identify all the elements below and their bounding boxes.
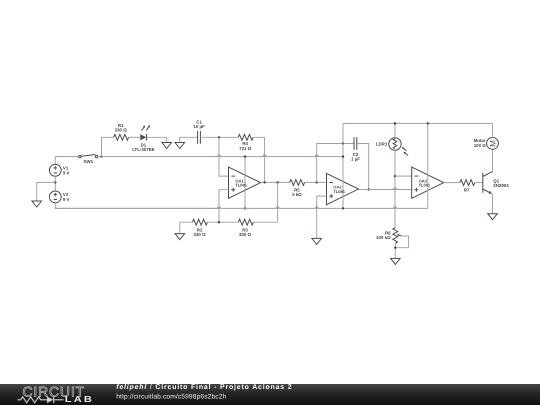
wire hop	[263, 155, 266, 157]
capacitor C1	[193, 119, 205, 143]
resistor R7	[460, 180, 475, 193]
svg-text:330 Ω: 330 Ω	[239, 232, 252, 237]
wire OA2 power pins / supply column	[342, 123, 344, 208]
svg-text:LAB: LAB	[65, 394, 94, 404]
wire ground to R2	[180, 222, 193, 233]
op-amp OA1	[229, 167, 261, 198]
wire R3 to output riser	[253, 221, 277, 223]
wire LDR1 bottom to R6	[394, 150, 396, 228]
wire Q1 collector to motor	[492, 149, 494, 171]
switch SW1	[79, 155, 98, 164]
svg-text:R7: R7	[464, 188, 470, 193]
resistor R2	[192, 219, 207, 237]
node LDR1 to OA3 inverting	[394, 175, 396, 177]
wire R7 to Q1 base	[475, 182, 483, 184]
wire R5 to OA2 inverting input	[305, 181, 327, 183]
wire OA3 output to R7	[444, 182, 460, 184]
node R2/R3 junction	[218, 221, 220, 223]
resistor R1	[114, 123, 129, 140]
ground	[488, 214, 498, 220]
resistor R4	[238, 134, 253, 150]
wire C2 left branch	[317, 144, 354, 183]
svg-text:M: M	[488, 140, 497, 147]
op-amp OA2	[327, 173, 359, 204]
wire output down to R3	[277, 182, 279, 222]
svg-text:1 µF: 1 µF	[351, 157, 360, 162]
wire hop	[315, 207, 318, 209]
svg-text:100 kΩ: 100 kΩ	[376, 235, 391, 240]
svg-text:LTL-307EE: LTL-307EE	[132, 147, 154, 152]
wire hop	[393, 207, 396, 209]
wire OA2 noninverting to ground	[317, 196, 327, 238]
wire hop	[315, 155, 318, 157]
resistor R3	[238, 219, 253, 237]
node OA2 V- on rail	[342, 207, 344, 209]
node C2 to output	[368, 188, 370, 190]
wire motor top to rail	[492, 123, 494, 137]
wire OA1 output	[261, 181, 290, 183]
node SW1 rail junction	[100, 155, 102, 157]
wire Q1 emitter to ground	[492, 194, 494, 214]
svg-text:TL081: TL081	[235, 183, 247, 188]
svg-text:330 Ω: 330 Ω	[194, 232, 207, 237]
wire C2 right to OA2 output	[357, 144, 369, 190]
node R3 junction	[276, 181, 278, 183]
wire LDR1 top to rail	[394, 123, 396, 137]
motor M1	[474, 138, 499, 150]
upper rail wire	[102, 156, 344, 158]
wire C1 to R4	[200, 136, 238, 138]
capacitor C2	[351, 137, 360, 162]
wire hop	[276, 207, 279, 209]
wire OA3 inverting input	[395, 175, 412, 177]
wire hop	[217, 207, 220, 209]
wire R2 to R3	[207, 221, 238, 223]
ground	[32, 201, 42, 207]
ground	[175, 143, 185, 149]
wire R4 to output feedback	[253, 137, 264, 182]
wire OA1 power pins	[244, 157, 246, 209]
node feedback junction	[263, 181, 265, 183]
wire OA3 power pins	[427, 123, 429, 208]
svg-text:felipehl / Circuito Final - Pr: felipehl / Circuito Final - Projeto Acio…	[116, 384, 292, 391]
node OA3 V+ on top rail	[427, 122, 429, 124]
ground	[175, 234, 185, 240]
node C2 branch on power column	[342, 142, 344, 144]
CircuitLab logo wordmark	[23, 383, 94, 404]
node LDR1 on top rail	[394, 122, 396, 124]
footer bar	[0, 384, 540, 405]
photoresistor LDR1	[376, 138, 408, 156]
wire R6 bottom to ground	[394, 243, 396, 258]
ground	[391, 258, 401, 264]
wire ground to C1	[180, 137, 198, 142]
wire D1 to ground	[147, 137, 167, 142]
node C1/R4 junction	[218, 136, 220, 138]
wire V2 bottom to lower rail	[55, 203, 219, 209]
svg-text:SW1: SW1	[84, 159, 94, 164]
svg-text:TL081: TL081	[419, 183, 431, 188]
transistor Q1	[483, 171, 509, 194]
svg-text:9 V: 9 V	[63, 170, 70, 175]
voltage source V1	[49, 164, 69, 176]
wire hop	[217, 155, 220, 157]
node power column on upper rail	[342, 155, 344, 157]
wire V1 bottom to node	[54, 176, 56, 191]
lower rail wire	[55, 207, 428, 209]
node R6 wiper junction	[394, 247, 396, 249]
node OA1 V- on rail	[244, 207, 246, 209]
voltage source V2	[49, 191, 69, 203]
svg-text:330 Ω: 330 Ω	[115, 127, 128, 132]
wire riser to LED branch	[102, 137, 114, 156]
wire V1 top to SW1	[55, 157, 78, 165]
svg-text:LDR1: LDR1	[376, 142, 388, 147]
wire junction down to OA1 inverting input	[219, 137, 229, 176]
top rail wire	[343, 122, 493, 124]
svg-text:721 Ω: 721 Ω	[239, 146, 252, 151]
svg-text:2N3904: 2N3904	[493, 183, 509, 188]
svg-text:5 kΩ: 5 kΩ	[292, 192, 302, 197]
LED D1	[132, 125, 154, 152]
potentiometer R6	[376, 228, 409, 248]
node OA1 V+ on rail	[244, 155, 246, 157]
svg-text:9 V: 9 V	[63, 197, 70, 202]
node between V1 and V2	[54, 181, 56, 183]
svg-text:http://circuitlab.com/c5998p6s: http://circuitlab.com/c5998p6s2bc2h	[116, 393, 226, 400]
wire OA2 output to OA3 noninverting	[359, 189, 412, 191]
ground	[312, 238, 322, 244]
svg-text:10 µF: 10 µF	[193, 124, 205, 129]
wire hop	[393, 188, 396, 190]
wire R1 to D1	[129, 136, 141, 138]
node C2 branch junction	[316, 181, 318, 183]
logo resistor-diode glyph	[18, 397, 64, 404]
wire SW1 to riser	[98, 156, 102, 158]
svg-text:TL081: TL081	[333, 189, 345, 194]
resistor R5	[290, 180, 305, 198]
ground	[162, 143, 172, 149]
footer title text	[116, 384, 292, 400]
wire OA1 noninverting input	[219, 190, 229, 223]
op-amp OA3	[412, 167, 444, 198]
svg-text:100 Ω: 100 Ω	[474, 143, 487, 148]
wire node to ground	[37, 182, 56, 201]
